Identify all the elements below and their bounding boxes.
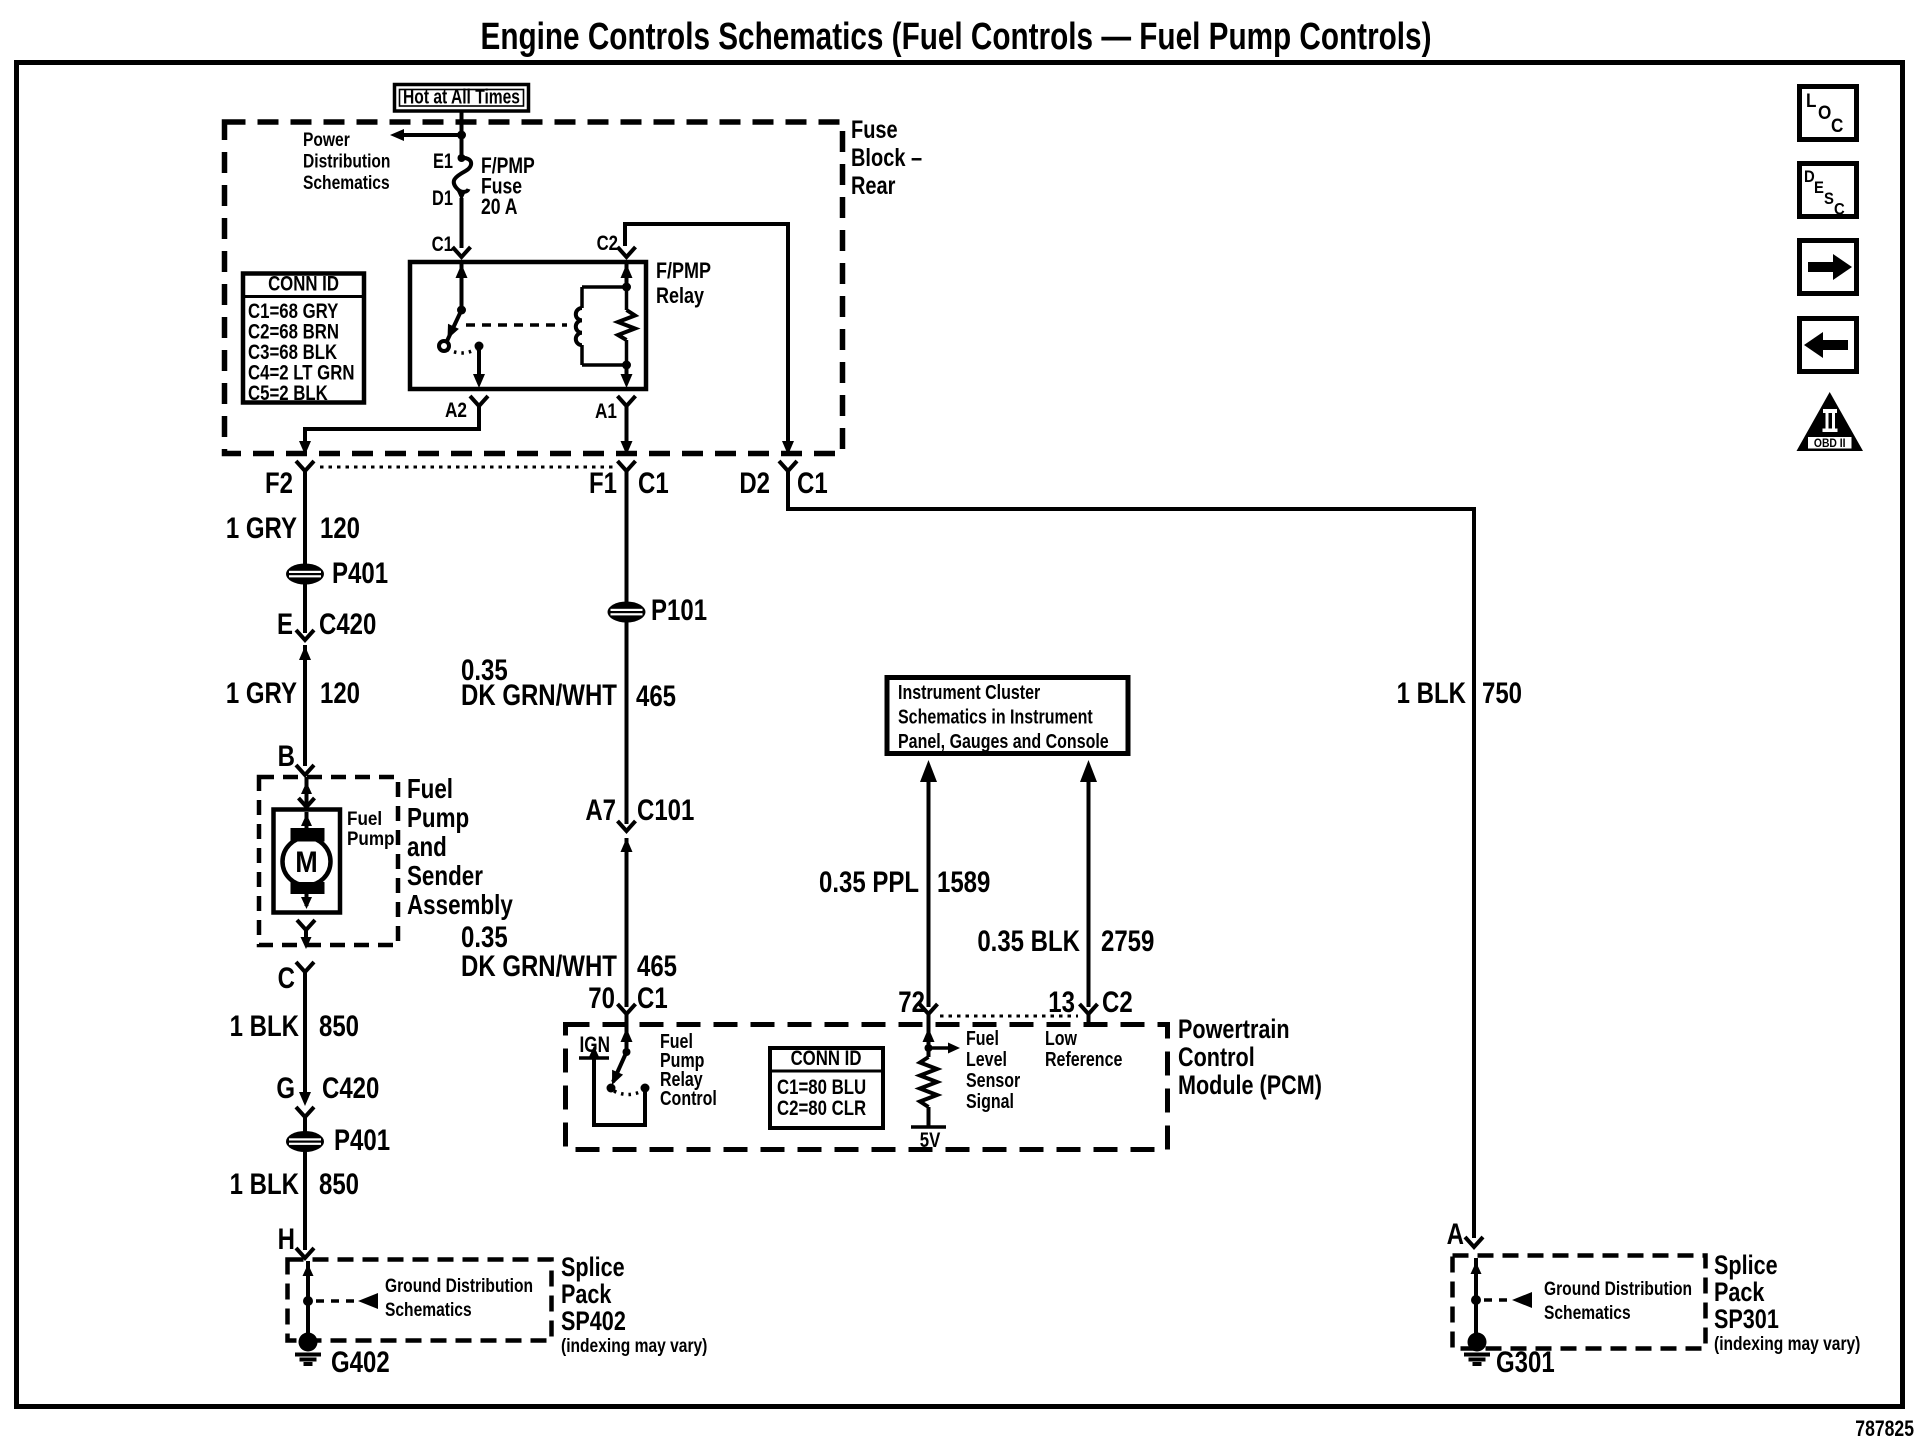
svg-text:Relay: Relay (656, 284, 705, 308)
svg-text:Fuel: Fuel (966, 1027, 999, 1049)
svg-text:C1: C1 (637, 980, 668, 1014)
svg-text:850: 850 (319, 1008, 359, 1042)
connector row dotted line (940, 1015, 1078, 1018)
svg-text:H: H (278, 1221, 295, 1255)
svg-text:Module (PCM): Module (PCM) (1178, 1071, 1322, 1101)
svg-text:D1: D1 (432, 186, 453, 209)
wire P401 to C420 (303, 584, 307, 633)
svg-text:G301: G301 (1496, 1344, 1555, 1378)
wire arrow to Power Distribution Schematics (403, 133, 462, 137)
svg-text:Assembly: Assembly (407, 890, 513, 921)
svg-text:C: C (1831, 115, 1843, 136)
svg-text:SP301: SP301 (1714, 1305, 1779, 1335)
svg-text:70: 70 (588, 980, 615, 1014)
svg-text:Low: Low (1045, 1027, 1078, 1049)
svg-text:Control: Control (660, 1087, 717, 1109)
wire into assembly (305, 777, 309, 809)
relay coil top rail (582, 285, 627, 289)
relay switch common leg (460, 264, 464, 310)
svg-text:Pump: Pump (407, 803, 469, 834)
svg-text:G402: G402 (331, 1344, 390, 1378)
svg-text:C1: C1 (638, 465, 669, 499)
svg-text:1 GRY: 1 GRY (226, 510, 297, 544)
svg-text:C2=80 CLR: C2=80 CLR (777, 1097, 866, 1120)
ground G301 (1468, 1333, 1487, 1352)
relay actuation dashed link (466, 323, 567, 327)
svg-text:P401: P401 (332, 555, 388, 589)
svg-text:Powertrain: Powertrain (1178, 1015, 1290, 1045)
wire to P401 (303, 1125, 307, 1133)
ground G402 (299, 1333, 318, 1352)
svg-text:OBD II: OBD II (1814, 438, 1846, 451)
relay coil leg to A1 (625, 365, 629, 377)
svg-text:465: 465 (636, 678, 676, 712)
svg-text:Ground Distribution: Ground Distribution (385, 1274, 533, 1296)
svg-text:A2: A2 (445, 398, 467, 422)
svg-text:Fuel: Fuel (407, 774, 453, 805)
svg-text:1 BLK: 1 BLK (230, 1166, 300, 1200)
svg-text:A7: A7 (585, 792, 616, 826)
grommet P401 (lower) (286, 1131, 324, 1152)
wire D2 to splice pack SP301 (788, 479, 1474, 1238)
dashed reference arrow to Ground Distribution Schematics (1484, 1298, 1510, 1302)
svg-text:1589: 1589 (937, 864, 990, 898)
svg-text:L: L (1806, 90, 1816, 111)
svg-text:(indexing may vary): (indexing may vary) (561, 1334, 707, 1356)
svg-text:72: 72 (898, 984, 925, 1018)
svg-text:Pump: Pump (347, 828, 394, 849)
svg-text:E: E (1814, 179, 1824, 197)
svg-text:Splice: Splice (1714, 1251, 1778, 1281)
svg-text:and: and (407, 832, 447, 863)
svg-text:Signal: Signal (966, 1090, 1014, 1112)
svg-text:Power: Power (303, 128, 350, 150)
Powertrain Control Module dashed box (566, 1025, 1168, 1150)
icon next-page right arrow button (1800, 241, 1857, 294)
svg-text:C2: C2 (597, 232, 618, 255)
svg-text:C2: C2 (1102, 984, 1133, 1018)
svg-text:Schematics in Instrument: Schematics in Instrument (898, 706, 1093, 728)
icon DESC button (1800, 164, 1857, 217)
svg-text:G: G (276, 1070, 295, 1104)
svg-text:M: M (295, 846, 317, 880)
svg-text:5V: 5V (920, 1129, 941, 1152)
Splice Pack SP402 dashed box (288, 1260, 552, 1341)
relay coil bottom rail (582, 363, 627, 367)
CONN ID table (PCM) (770, 1048, 883, 1128)
svg-text:Panel, Gauges and Console: Panel, Gauges and Console (898, 730, 1109, 752)
svg-text:2759: 2759 (1101, 923, 1154, 957)
CONN ID table (fuse block) (243, 274, 364, 403)
svg-text:C: C (278, 960, 295, 994)
svg-text:Sender: Sender (407, 861, 483, 892)
svg-text:13: 13 (1048, 984, 1075, 1018)
svg-text:C5=2 BLK: C5=2 BLK (248, 382, 328, 405)
svg-text:C420: C420 (322, 1070, 379, 1104)
svg-text:B: B (278, 738, 295, 772)
svg-text:Engine Controls Schematics (Fu: Engine Controls Schematics (Fuel Control… (481, 16, 1432, 58)
svg-text:Level: Level (966, 1048, 1007, 1070)
svg-text:Pack: Pack (561, 1280, 612, 1310)
svg-text:Rear: Rear (851, 172, 896, 200)
svg-text:1 GRY: 1 GRY (226, 675, 297, 709)
svg-text:850: 850 (319, 1166, 359, 1200)
grommet P101 (608, 602, 646, 623)
svg-text:0.35 BLK: 0.35 BLK (977, 923, 1080, 957)
connector chevron C1 (453, 247, 471, 257)
svg-text:IGN: IGN (580, 1033, 610, 1058)
Fuel Pump and Sender Assembly dashed box (259, 777, 398, 945)
dashed reference arrow to Ground Distribution Schematics (316, 1299, 356, 1303)
svg-text:465: 465 (637, 948, 677, 982)
svg-text:P101: P101 (651, 592, 707, 626)
svg-text:Pack: Pack (1714, 1278, 1765, 1308)
5V supply (911, 1125, 946, 1129)
svg-text:A: A (1447, 1216, 1464, 1250)
icon LOC button (1800, 87, 1857, 140)
wire F1 to P101 (625, 479, 629, 603)
svg-text:20 A: 20 A (481, 195, 517, 219)
svg-text:120: 120 (320, 675, 360, 709)
svg-text:C1=80 BLU: C1=80 BLU (777, 1076, 866, 1099)
relay coil resistor zigzag (625, 287, 629, 310)
svg-text:Distribution: Distribution (303, 150, 390, 172)
Splice Pack SP301 dashed box (1453, 1256, 1706, 1349)
svg-text:P401: P401 (334, 1122, 390, 1156)
svg-text:120: 120 (320, 510, 360, 544)
svg-text:Control: Control (1178, 1043, 1255, 1073)
svg-text:(indexing may vary): (indexing may vary) (1714, 1332, 1860, 1354)
svg-text:Sensor: Sensor (966, 1069, 1020, 1091)
svg-text:F1: F1 (589, 465, 617, 499)
wire P101 to C101 (625, 622, 629, 824)
svg-text:SP402: SP402 (561, 1307, 626, 1337)
svg-text:1 BLK: 1 BLK (1397, 675, 1467, 709)
svg-text:C1: C1 (432, 233, 454, 256)
connector row dotted line (320, 466, 616, 469)
svg-text:F2: F2 (265, 465, 293, 499)
IGN feed into driver switch (594, 1058, 645, 1125)
svg-text:0.35 PPL: 0.35 PPL (819, 864, 919, 898)
wire into splice pack to ground G402 (306, 1261, 310, 1338)
svg-text:Schematics: Schematics (385, 1298, 472, 1320)
svg-text:Splice: Splice (561, 1253, 625, 1283)
fuel pump inner box (274, 810, 341, 913)
svg-text:S: S (1824, 190, 1834, 208)
wire relay A2 down-left to F2 (305, 414, 479, 444)
svg-text:E1: E1 (433, 149, 453, 172)
relay coil feed leg from C2 (625, 264, 629, 287)
svg-text:Instrument Cluster: Instrument Cluster (898, 681, 1040, 703)
svg-text:Fuse: Fuse (851, 116, 898, 144)
fuel pump motor M (305, 812, 309, 830)
PCM fuel level sense resistor (927, 1022, 931, 1057)
svg-text:Block –: Block – (851, 144, 922, 172)
svg-text:750: 750 (1482, 675, 1522, 709)
Hot at All Times power label box (395, 85, 529, 112)
svg-text:Fuel: Fuel (347, 808, 382, 829)
wire PCM 13 up to instrument cluster (1087, 780, 1091, 1007)
PCM fuel pump relay driver switch (625, 1022, 629, 1052)
arrow into D2 (782, 441, 794, 455)
wire C101 to PCM pin 70 (625, 838, 629, 1007)
assembly output connector (297, 920, 315, 930)
svg-text:C1: C1 (797, 465, 828, 499)
wire fuse to relay pin C1 (460, 198, 464, 248)
svg-text:1 BLK: 1 BLK (230, 1008, 300, 1042)
icon prev-page left arrow button (1800, 319, 1857, 372)
icon OBD II triangle (1797, 392, 1864, 451)
wire relay C2 up and over to D2 (625, 224, 788, 444)
wire relay A1 down to F1 (625, 414, 629, 444)
relay switch blade (447, 310, 462, 341)
svg-text:CONN ID: CONN ID (268, 273, 339, 296)
relay switch output leg to A2 (477, 346, 481, 377)
svg-text:F/PMP: F/PMP (656, 259, 711, 283)
svg-text:C101: C101 (637, 792, 694, 826)
wire C420 to fuel pump assembly (303, 645, 307, 766)
svg-text:O: O (1818, 102, 1831, 123)
svg-text:A1: A1 (595, 399, 617, 423)
connector chevron C2 (618, 247, 636, 257)
wire C to C420 (G) (303, 980, 307, 1095)
svg-text:Ground Distribution: Ground Distribution (1544, 1277, 1692, 1299)
wire from Hot at All Times into fuse (460, 110, 464, 158)
svg-text:Schematics: Schematics (1544, 1301, 1631, 1323)
svg-text:DK GRN/WHT: DK GRN/WHT (461, 948, 617, 982)
svg-text:C420: C420 (319, 606, 376, 640)
wire P401 to splice pack (303, 1151, 307, 1250)
Fuse Block - Rear dashed enclosure (225, 122, 843, 454)
svg-text:787825: 787825 (1855, 1417, 1914, 1441)
relay switch closed-contact dotted arc (447, 349, 476, 353)
wire PCM 72 up to instrument cluster (927, 780, 931, 1007)
junction node (457, 131, 466, 140)
wire into splice pack to ground G301 (1474, 1258, 1478, 1336)
svg-text:D2: D2 (739, 465, 770, 499)
svg-text:C: C (1834, 201, 1845, 219)
svg-text:Reference: Reference (1045, 1048, 1122, 1070)
svg-text:Hot at All Times: Hot at All Times (403, 86, 520, 108)
fuse F/PMP 20A element (terminal E1 to D1) (458, 154, 466, 162)
svg-text:CONN ID: CONN ID (791, 1047, 862, 1070)
Instrument Cluster reference box (887, 678, 1128, 754)
F/PMP relay box (410, 262, 646, 389)
svg-text:E: E (277, 606, 293, 640)
svg-text:Schematics: Schematics (303, 171, 390, 193)
grommet P401 (286, 564, 324, 585)
svg-text:DK GRN/WHT: DK GRN/WHT (461, 677, 617, 711)
relay coil inductor winding (580, 287, 584, 308)
wire F2 to P401 (303, 479, 307, 566)
